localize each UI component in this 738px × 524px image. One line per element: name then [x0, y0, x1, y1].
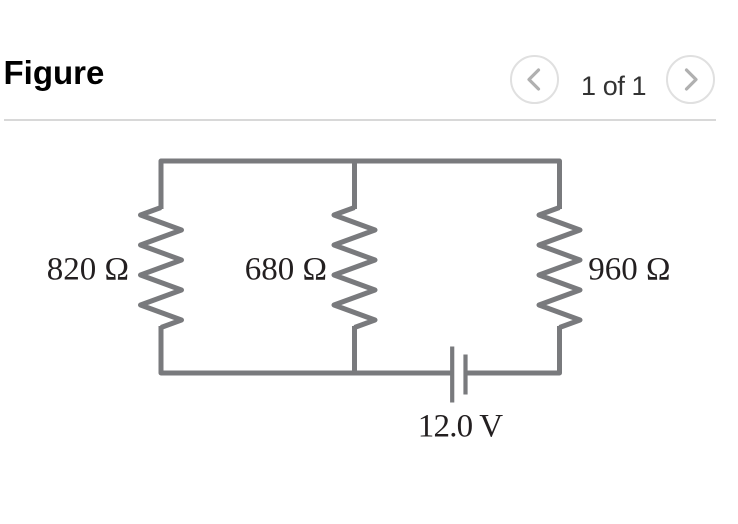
svg-text:820 Ω: 820 Ω [47, 251, 129, 287]
svg-text:12.0 V: 12.0 V [418, 408, 503, 444]
svg-text:680 Ω: 680 Ω [245, 251, 327, 287]
svg-text:960 Ω: 960 Ω [588, 251, 670, 287]
